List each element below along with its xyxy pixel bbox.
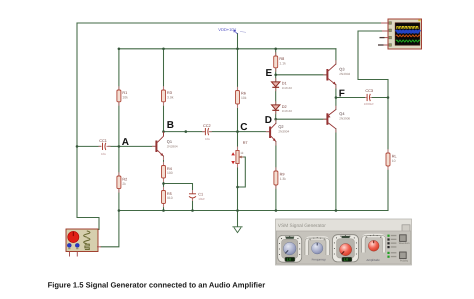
- svg-text:C: C: [240, 122, 247, 133]
- pin leads R5: [163, 187, 165, 208]
- wire node B-C row: CC2 to node C junction and Q2 base: [210, 131, 270, 133]
- scope red channel waveform: [396, 35, 420, 37]
- wire node E junction to D1 anode: [275, 75, 277, 82]
- svg-text:CC3: CC3: [365, 89, 373, 93]
- resistor R2: [117, 176, 127, 189]
- junction VCC rail at R3: [162, 48, 165, 51]
- scope yellow channel waveform: [396, 26, 419, 28]
- resistor R3: [162, 90, 174, 102]
- wire Q3 emitter down to node F junction: [335, 85, 337, 98]
- diode D1 1N4148: [272, 82, 293, 90]
- wire Q4 emitter up to node F junction: [335, 98, 337, 110]
- junction node B at R3/Q1 collector: [162, 130, 165, 133]
- wire ground stub below rail at pot column: [237, 211, 239, 227]
- svg-text:C1: C1: [198, 192, 203, 196]
- pin leads R3: [163, 86, 165, 106]
- transistor Q2 2N3904: [270, 123, 289, 141]
- ground symbol below rail: [232, 227, 242, 233]
- wire R2 bottom to ground rail: [118, 189, 120, 211]
- junction node C at R6/R7 column: [236, 130, 239, 133]
- resistor R6: [236, 91, 247, 105]
- junction Q1 emitter R4/R5/C1: [162, 182, 165, 185]
- power pin VDD+10V: [218, 27, 246, 34]
- svg-text:10u: 10u: [101, 152, 106, 156]
- svg-text:2k: 2k: [122, 182, 126, 186]
- pin leads R8: [275, 52, 277, 71]
- svg-text:R1: R1: [122, 91, 127, 95]
- junction ground rail at R2/generator: [118, 209, 121, 212]
- svg-text:E: E: [266, 68, 273, 79]
- junction node E at R8/D1: [274, 74, 277, 77]
- svg-text:1.0: 1.0: [287, 258, 292, 262]
- panel close button: [402, 225, 410, 232]
- svg-text:2N3904: 2N3904: [278, 130, 289, 134]
- wire node B row: B junction to CC2: [164, 131, 204, 133]
- wire node A row: input junction to CC1: [77, 145, 101, 147]
- wire oscilloscope channel B route: [358, 31, 388, 80]
- wire R1 bottom to node A row: [118, 102, 120, 147]
- svg-text:2N3904: 2N3904: [339, 72, 350, 76]
- svg-text:10k: 10k: [122, 95, 128, 99]
- waveform selector LEDs: [387, 235, 396, 258]
- transistor Q1 2N3904: [156, 132, 178, 157]
- wire Q2 collector rise to node D junction: [275, 119, 277, 123]
- resistor R5: [162, 191, 173, 204]
- wire R4 bottom to emitter junction: [163, 178, 165, 184]
- knob 4 (red): [368, 240, 379, 251]
- resistor R4: [162, 166, 173, 179]
- wire VDD supply drop to VCC rail: [237, 34, 239, 49]
- junction node A (input/CC1/generator): [76, 145, 79, 148]
- wire R6 bottom to node C row: [237, 104, 239, 132]
- VSM Signal Generator panel: [276, 219, 412, 265]
- svg-text:Q1: Q1: [167, 139, 172, 144]
- svg-text:Amplitude: Amplitude: [366, 258, 380, 262]
- svg-text:R6: R6: [241, 91, 246, 95]
- wire node C to R7 pot top: [237, 132, 239, 151]
- LCD readout 1: [285, 257, 295, 261]
- diode D2 1N4148: [272, 105, 293, 113]
- capacitor CC1: [99, 139, 111, 156]
- svg-text:1.1k: 1.1k: [279, 61, 286, 65]
- wire R3 column: VCC rail to R3 top: [163, 49, 165, 90]
- svg-text:Q2: Q2: [278, 124, 283, 129]
- junction node A at R1/R2: [118, 145, 121, 148]
- svg-text:10: 10: [392, 159, 396, 163]
- wire C1 bottom to ground rail: [192, 198, 194, 211]
- knob 3 (red): [340, 244, 352, 256]
- capacitor CC3: [364, 89, 374, 106]
- svg-text:VSM Signal Generator: VSM Signal Generator: [278, 223, 326, 229]
- junction ground rail at C1: [191, 209, 194, 212]
- wire R9 bottom to ground rail: [275, 185, 277, 211]
- svg-text:CC1: CC1: [99, 139, 107, 143]
- svg-text:R7: R7: [243, 141, 248, 145]
- pin leads Q4: [323, 106, 336, 133]
- svg-text:Waveform: Waveform: [399, 242, 410, 245]
- svg-text:2N3904: 2N3904: [167, 145, 178, 149]
- junction ground rail at Q4 collector: [335, 209, 338, 212]
- svg-text:R5: R5: [167, 192, 172, 196]
- waveform button: [400, 235, 407, 242]
- svg-text:Figure 1.5 Signal Generator co: Figure 1.5 Signal Generator connected to…: [48, 280, 266, 289]
- wire ground rail y=210.5: [119, 210, 388, 212]
- pin leads R4: [163, 162, 165, 182]
- pin leads D2: [275, 101, 277, 114]
- junction ground rail at pot/ground symbol: [236, 209, 239, 212]
- wire R5 bottom to ground rail: [163, 204, 165, 211]
- wire Q3 collector up to VCC rail corner: [335, 49, 337, 64]
- component pin leads (red): [119, 52, 388, 207]
- wire node E row to Q3 base: [276, 74, 327, 76]
- svg-text:3.9k: 3.9k: [167, 95, 174, 99]
- amplitude knob group (horseshoe track): [362, 235, 386, 262]
- svg-text:D: D: [265, 115, 272, 126]
- svg-text:R4: R4: [167, 167, 172, 171]
- wire generator return: from generator right side to ground rail junction: [101, 211, 119, 247]
- svg-text:R9: R9: [280, 172, 285, 176]
- pin leads R2: [118, 172, 120, 192]
- svg-text:R8: R8: [279, 57, 284, 61]
- svg-text:10k: 10k: [241, 96, 247, 100]
- svg-text:1.0: 1.0: [344, 258, 349, 262]
- pin leads Q3: [323, 60, 336, 88]
- svg-text:1k: 1k: [240, 151, 244, 155]
- wire Q1 emitter to R4 top: [163, 156, 165, 165]
- junction output node at CC3/RL/scope: [387, 96, 390, 99]
- scope pin stub C: [385, 37, 389, 39]
- generator pin stub 2: [76, 252, 78, 257]
- junction VCC rail at VDD column: [236, 48, 239, 51]
- frequency knob group (horseshoe track): [305, 237, 329, 262]
- resistor RL: [386, 153, 397, 166]
- svg-text:Q3: Q3: [339, 67, 344, 72]
- svg-text:910: 910: [167, 196, 173, 200]
- svg-text:R2: R2: [122, 177, 127, 181]
- oscilloscope body: [378, 19, 422, 49]
- svg-text:10u: 10u: [205, 137, 210, 141]
- svg-text:Frequency: Frequency: [312, 258, 327, 262]
- svg-text:Q4: Q4: [339, 111, 345, 116]
- pin leads R6: [237, 87, 239, 108]
- potentiometer R7: [231, 141, 247, 168]
- wire R1 column: VCC rail to R1 top: [118, 49, 120, 90]
- junction R7 wiper to bottom terminal: [236, 186, 239, 189]
- wire node F row: junction to CC3: [336, 97, 366, 99]
- wire R8 bottom to node E junction: [275, 68, 277, 75]
- scope pin stub A: [381, 22, 389, 24]
- junction ground rail at R9: [275, 209, 278, 212]
- scope pin stub B: [382, 30, 389, 32]
- svg-text:RL: RL: [392, 154, 397, 158]
- signal generator icon: [66, 229, 101, 257]
- junction node F at Q3/Q4 emitters: [335, 96, 338, 99]
- wire R8 column: VCC rail to R8 top: [275, 49, 277, 56]
- pin leads RL: [387, 149, 389, 170]
- scope pin pad channel C: [389, 36, 392, 39]
- polarity button: [400, 252, 407, 259]
- svg-text:Polarity: Polarity: [400, 260, 409, 263]
- generator pin stub 1: [69, 252, 71, 257]
- knob 1 (blue): [283, 242, 296, 255]
- svg-text:1N4148: 1N4148: [282, 86, 293, 90]
- svg-text:1N4148: 1N4148: [282, 109, 293, 113]
- wire R2 column: node A to R2 top: [118, 146, 120, 176]
- svg-text:A: A: [122, 137, 129, 148]
- transistor Q3 2N3904: [327, 64, 350, 85]
- scope pin pad channel D: [389, 44, 392, 47]
- capacitor C1: [189, 190, 205, 201]
- transistor Q4 2N3906: [327, 110, 350, 129]
- junction node B row mid dot: [185, 130, 188, 133]
- capacitor CC2: [202, 124, 212, 141]
- svg-text:B: B: [167, 120, 174, 131]
- wire C1 branch from emitter junction to C1 top: [164, 184, 193, 194]
- junction VCC rail at R8: [274, 48, 277, 51]
- wire output column: scope route junction down through CC3 node to RL top: [387, 80, 389, 154]
- knob 2 (blue): [312, 243, 323, 254]
- scope pin pad channel A: [389, 22, 392, 25]
- svg-text:2N3906: 2N3906: [339, 116, 350, 120]
- wire R7 pot bottom to wiper junction and ground rail: [237, 164, 239, 211]
- resistor R8: [274, 56, 286, 68]
- svg-text:CC2: CC2: [203, 124, 211, 128]
- wire node A row: CC1 to Q1 base: [109, 145, 156, 147]
- wire node F row: CC3 to output column: [371, 97, 388, 99]
- scope green channel waveform: [396, 40, 420, 42]
- svg-text:R3: R3: [167, 91, 172, 95]
- wire RL bottom to ground rail corner: [387, 166, 389, 211]
- svg-text:F: F: [339, 89, 345, 100]
- wire emitter junction to R5 top: [163, 184, 165, 191]
- scope blue channel waveform: [396, 31, 420, 33]
- wire R3 bottom to node B row: [163, 102, 165, 132]
- pin leads Q1: [152, 132, 164, 160]
- svg-text:1.3k: 1.3k: [280, 177, 287, 181]
- wire D2 cathode to node D junction: [275, 112, 277, 120]
- scope pin stub D: [384, 44, 389, 46]
- wire top signal rail from input node to oscilloscope channel A: [77, 22, 381, 24]
- LCD readout 3: [342, 257, 352, 261]
- wire R7 wiper loop to bottom terminal: [238, 157, 246, 187]
- dial ring 1 (centre frequency dial): [278, 235, 302, 262]
- dial ring 3 (amplitude dial): [333, 235, 359, 262]
- wire node D row to Q4 base: [276, 118, 327, 120]
- wire R6/C column: VCC rail to R6 top: [237, 49, 239, 91]
- resistor R9: [274, 171, 286, 185]
- svg-text:10uF: 10uF: [198, 197, 205, 201]
- wire generator feed: down from input junction, jog right, down to generator top: [77, 146, 99, 229]
- pin leads Q2: [266, 120, 276, 146]
- junction ground rail at R5: [162, 209, 165, 212]
- junction node D at D2/Q2 collector: [274, 118, 277, 121]
- resistor R1: [117, 90, 128, 102]
- wire D1 cathode to D2 anode: [275, 88, 277, 104]
- pin leads R9: [275, 167, 277, 189]
- wire Q4 collector down to ground rail corner: [335, 129, 337, 211]
- pin leads D1: [275, 78, 277, 91]
- svg-text:100: 100: [167, 171, 173, 175]
- pin leads R1: [118, 86, 120, 106]
- wire VCC rail y=49 from R1 column to Q3 collector corner: [119, 48, 336, 50]
- wire Q2 emitter down to R9 top: [275, 142, 277, 172]
- junction VCC rail left end at R1: [118, 48, 121, 51]
- svg-text:1000uF: 1000uF: [364, 102, 374, 106]
- scope pin pad channel B: [389, 29, 392, 32]
- wire left input vertical from top rail down to node A row: [76, 23, 78, 146]
